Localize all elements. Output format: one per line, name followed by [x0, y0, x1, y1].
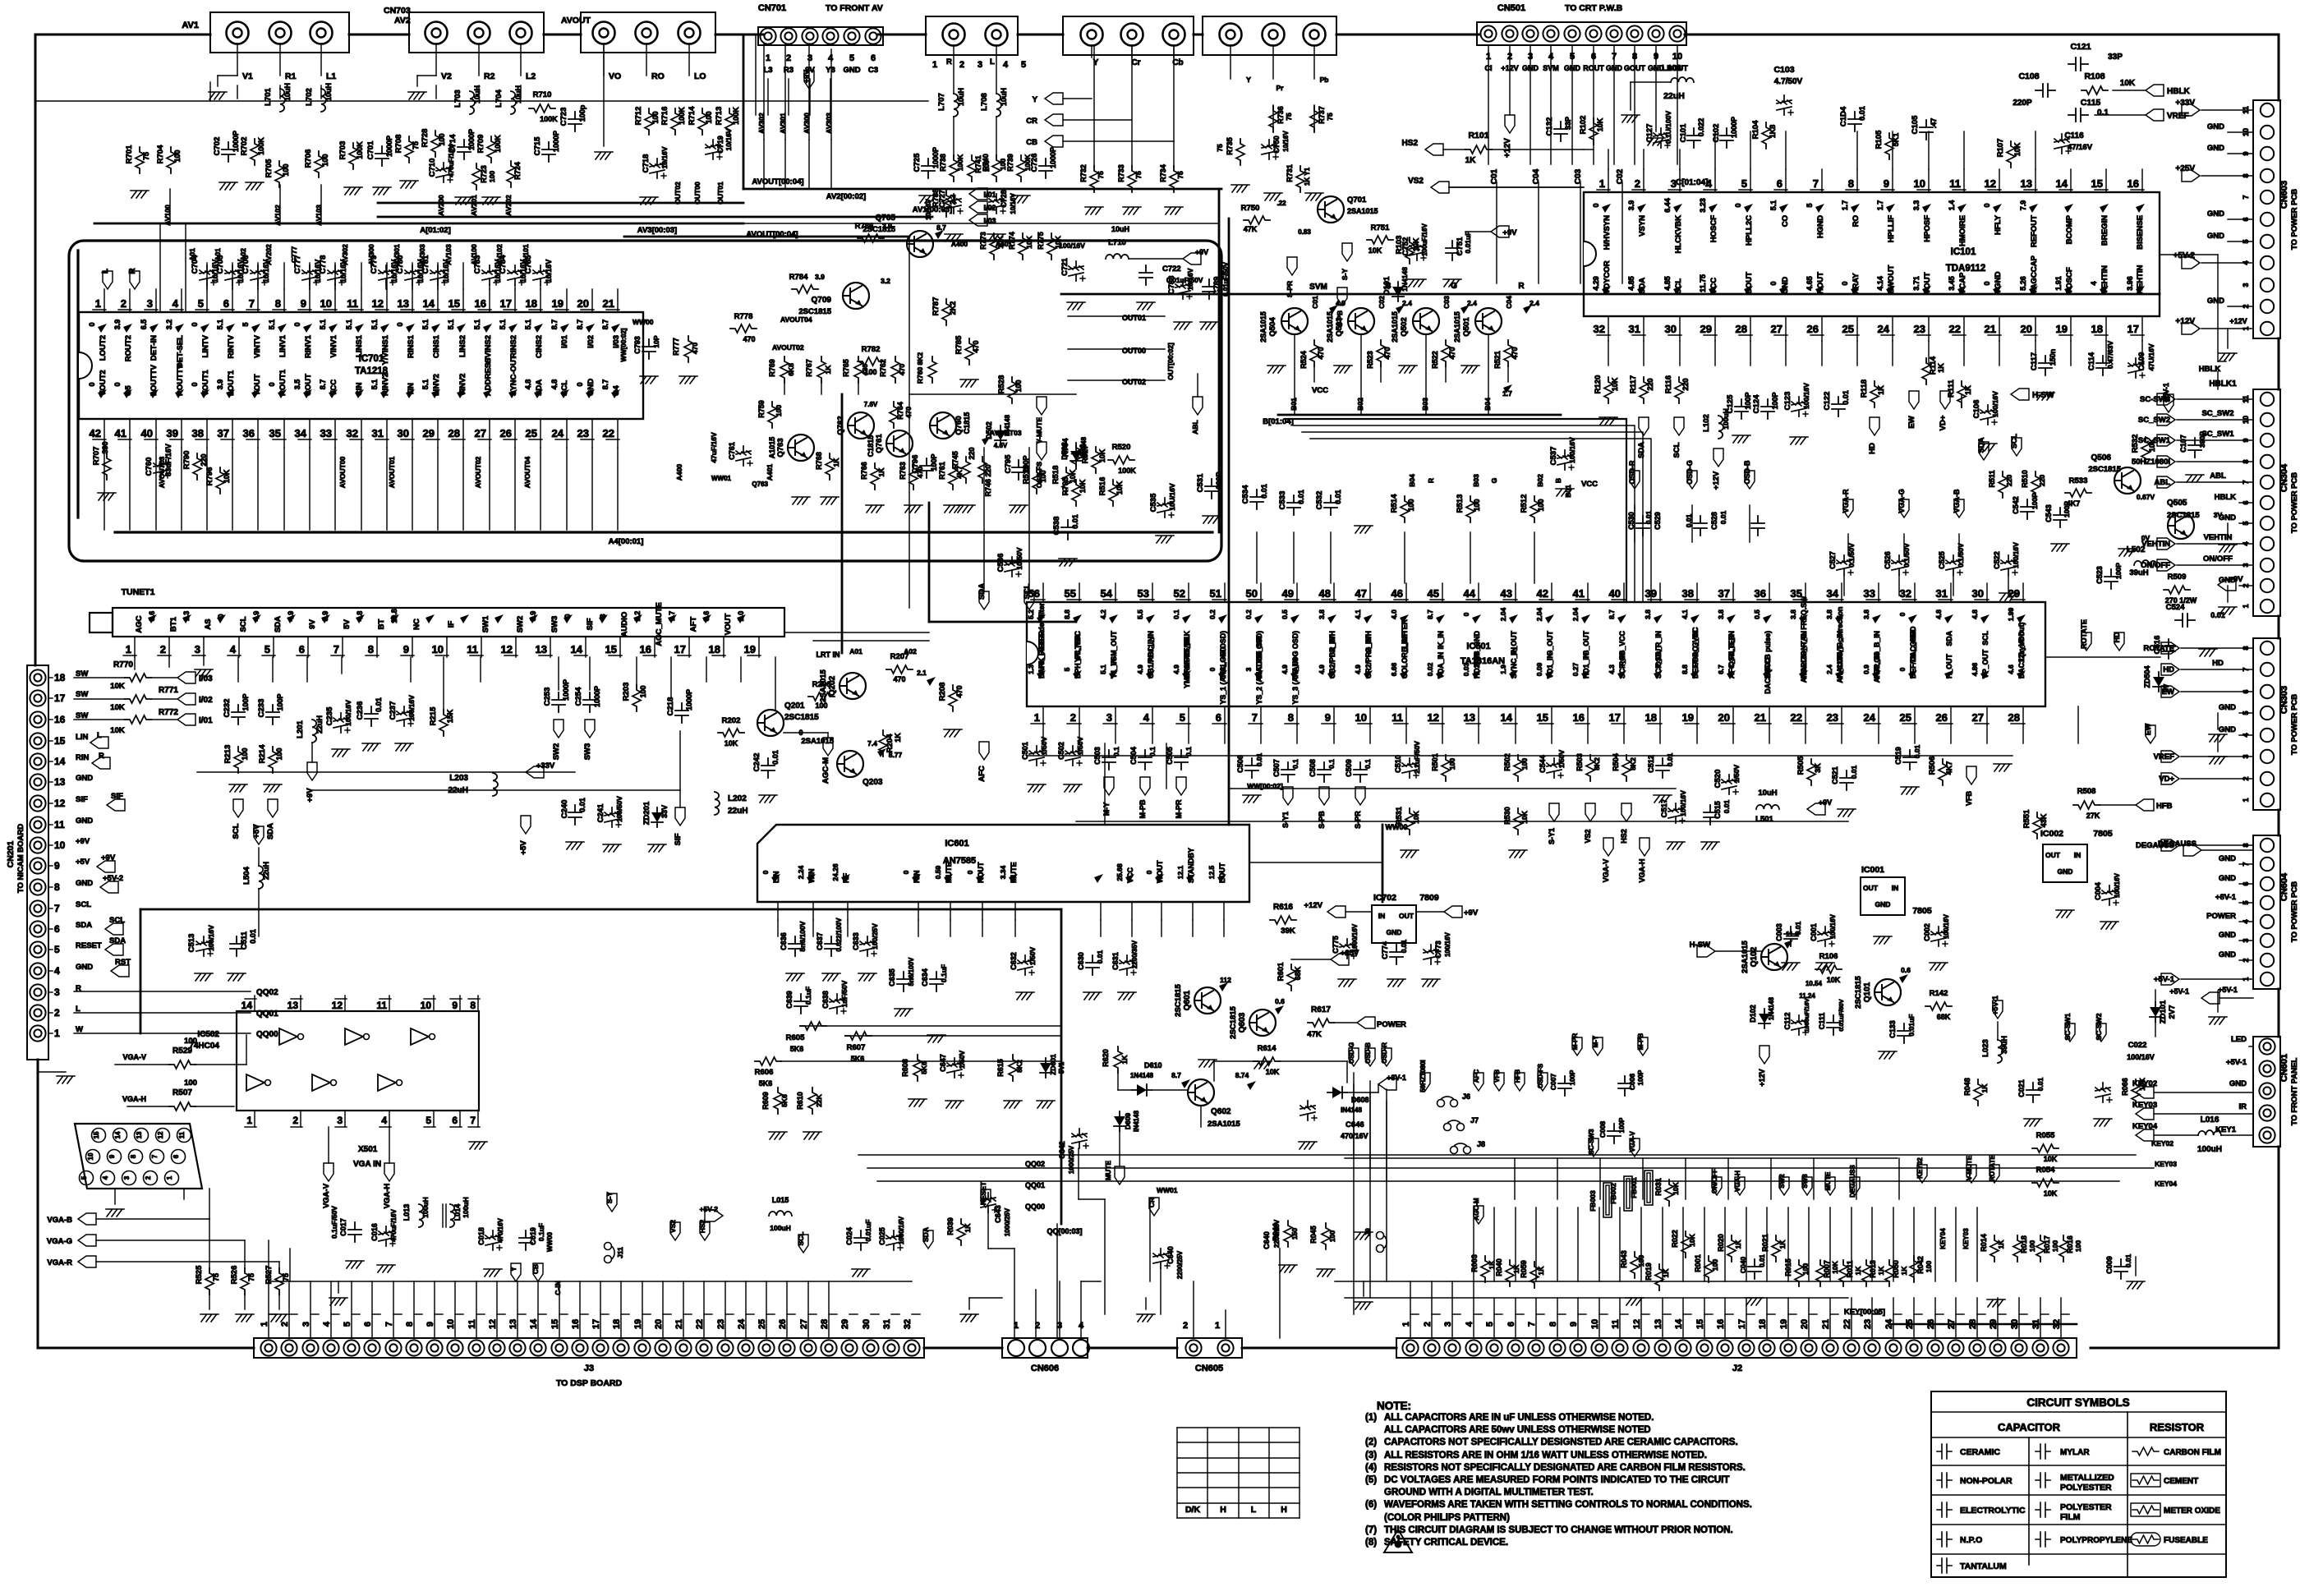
X501 pin 11 — [177, 1129, 191, 1143]
IC501 pin 3 — [1115, 706, 1116, 724]
connector AV1 — [210, 12, 349, 53]
svg-text:Y: Y — [1246, 76, 1251, 84]
IC501 pin 27 — [1986, 706, 1988, 724]
IC701 pin 36 — [257, 419, 259, 448]
J2 pin 13 — [1654, 1340, 1670, 1355]
capacitor C783 10/16V — [482, 265, 499, 285]
svg-text:C631: C631 — [1111, 952, 1120, 970]
svg-text:32: 32 — [903, 1319, 913, 1329]
svg-text:SDA: SDA — [76, 921, 92, 930]
svg-text:QQ02: QQ02 — [256, 988, 278, 997]
svg-text:4.86: 4.86 — [1971, 662, 1979, 676]
svg-text:1: 1 — [1034, 711, 1040, 724]
svg-text:0: 0 — [1983, 203, 1991, 207]
capacitor C532 0.01 — [1324, 495, 1337, 515]
svg-text:R111: R111 — [1947, 379, 1956, 397]
ground — [759, 795, 777, 803]
svg-text:10K: 10K — [1069, 469, 1077, 483]
transistor Q101 2SC1815 — [1874, 979, 1901, 1005]
resistor R — [942, 299, 950, 325]
svg-text:TO DSP BOARD: TO DSP BOARD — [556, 1378, 623, 1388]
X501 pin 5 — [80, 1171, 94, 1185]
svg-text:29: 29 — [423, 427, 435, 439]
svg-text:3: 3 — [1106, 711, 1112, 724]
connector J2 — [1396, 1338, 2077, 1358]
zener ZD201 33V — [651, 807, 663, 827]
svg-text:A400: A400 — [675, 464, 683, 481]
capacitor C646 470/16V — [1300, 1101, 1317, 1120]
svg-text:C241: C241 — [596, 803, 605, 822]
svg-text:GND: GND — [2219, 725, 2236, 734]
CN201 pin 18 — [30, 669, 45, 685]
capacitor C796 100P — [920, 458, 933, 478]
svg-text:1000uF/16V: 1000uF/16V — [1803, 998, 1810, 1032]
svg-text:0.83: 0.83 — [1298, 228, 1311, 236]
IC101 pin 21 — [1999, 316, 2000, 341]
IC501 pin 42 — [1551, 583, 1552, 602]
svg-text:4.8: 4.8 — [1934, 609, 1943, 619]
CN603 pin — [2261, 103, 2274, 117]
svg-text:18: 18 — [54, 672, 66, 683]
svg-text:Y: Y — [509, 1267, 517, 1272]
svg-text:3: 3 — [337, 1115, 343, 1126]
capacitor C242 0.01 — [761, 758, 775, 778]
svg-text:100/16V: 100/16V — [2012, 542, 2020, 568]
svg-text:SDA: SDA — [274, 616, 283, 632]
svg-text:3.5: 3.5 — [293, 379, 301, 390]
ground — [1999, 593, 2017, 600]
wires IC101 bottom pin drops — [1608, 341, 1609, 366]
svg-text:DET-SEL: DET-SEL — [176, 335, 185, 368]
capacitor C523 100P — [2104, 569, 2118, 589]
svg-text:390: 390 — [101, 441, 109, 453]
svg-text:0.1uF/50V: 0.1uF/50V — [330, 1206, 338, 1239]
svg-text:2.1: 2.1 — [917, 669, 927, 677]
resistor R — [817, 356, 826, 383]
svg-text:18: 18 — [1645, 711, 1657, 724]
svg-text:R777: R777 — [672, 338, 680, 356]
svg-text:VGA-R: VGA-R — [1842, 489, 1850, 513]
resistor R770 — [125, 674, 151, 682]
svg-text:100/16V: 100/16V — [1444, 931, 1451, 956]
CN304 pin — [2261, 476, 2274, 489]
svg-text:5.2: 5.2 — [1027, 609, 1035, 619]
J2 pin 28 — [1969, 1340, 1985, 1355]
svg-text:5.1: 5.1 — [447, 320, 455, 330]
wire — [94, 223, 743, 225]
svg-text:3.6: 3.6 — [702, 611, 711, 622]
connector CN304 — [2253, 389, 2280, 616]
capacitor C727 — [946, 194, 963, 214]
svg-text:100K: 100K — [540, 115, 558, 123]
svg-text:24: 24 — [1864, 711, 1876, 724]
svg-text:R: R — [128, 268, 137, 274]
svg-text:SIF: SIF — [111, 792, 123, 801]
capacitor C788 10/16V — [1175, 279, 1192, 299]
svg-text:+8V-1: +8V-1 — [1387, 1074, 1406, 1082]
svg-text:A01: A01 — [214, 248, 222, 261]
flag VS2 — [1431, 182, 1449, 193]
svg-text:100/16V: 100/16V — [1802, 383, 1810, 409]
svg-text:15: 15 — [448, 297, 460, 310]
capacitor C543 100P — [2054, 508, 2067, 527]
resistor R — [1727, 1235, 1736, 1262]
capacitor C253 1000P — [552, 692, 565, 712]
ground — [219, 182, 237, 190]
svg-text:R022: R022 — [1671, 1230, 1679, 1248]
AV1 jack 3 — [310, 22, 333, 44]
svg-text:17: 17 — [54, 692, 66, 704]
svg-text:19: 19 — [633, 1319, 643, 1329]
svg-text:100/16V: 100/16V — [1943, 913, 1950, 938]
svg-text:3.9: 3.9 — [113, 320, 122, 330]
svg-text:3: 3 — [1671, 177, 1677, 190]
IC501 pin 21 — [1769, 706, 1770, 724]
svg-text:470/16V: 470/16V — [497, 1217, 504, 1242]
flag S-PB — [1319, 787, 1329, 805]
svg-text:SC_SW2: SC_SW2 — [2201, 409, 2233, 418]
svg-text:C107: C107 — [2179, 435, 2187, 453]
IC501 pin 26 — [1950, 706, 1952, 724]
svg-text:C512: C512 — [1647, 755, 1655, 773]
svg-text:20: 20 — [1718, 711, 1730, 724]
svg-text:KEY02: KEY02 — [2151, 1139, 2173, 1148]
svg-text:SW2: SW2 — [552, 743, 561, 761]
svg-text:C02: C02 — [1378, 296, 1386, 309]
svg-text:1000P: 1000P — [685, 689, 693, 711]
ground — [344, 187, 362, 195]
capacitor C116 47/16V — [2054, 134, 2071, 154]
capacitor C789 0.01uF/50V — [1203, 279, 1216, 299]
svg-text:1.7: 1.7 — [1841, 200, 1849, 211]
svg-text:R519: R519 — [1022, 466, 1031, 485]
svg-text:0.01: 0.01 — [1297, 490, 1305, 504]
svg-text:15: 15 — [605, 643, 617, 655]
svg-text:R728: R728 — [421, 129, 430, 148]
svg-text:8: 8 — [275, 297, 281, 310]
svg-text:I/01: I/01 — [983, 191, 996, 199]
svg-text:D610: D610 — [1144, 1061, 1162, 1069]
CN701 pin 2 — [780, 28, 796, 44]
inductor L201 22uH — [312, 720, 317, 743]
J2 pin 24 — [1885, 1340, 1901, 1355]
svg-text:0: 0 — [902, 870, 910, 874]
svg-text:R042: R042 — [1916, 1256, 1925, 1274]
IC601 pin RF — [847, 902, 849, 920]
CN201 pin 7 — [30, 900, 45, 916]
svg-text:8.7: 8.7 — [319, 379, 327, 390]
svg-text:C538: C538 — [1052, 517, 1061, 536]
CN501 pin 4 — [1543, 25, 1558, 41]
flag +9V — [1444, 906, 1462, 918]
IC501 pin 39 — [1659, 583, 1661, 602]
IC701 pin 18 — [540, 289, 541, 312]
ground — [400, 181, 418, 188]
IC501 pin 38 — [1696, 583, 1698, 602]
svg-text:C127: C127 — [1645, 124, 1654, 143]
svg-text:C024: C024 — [845, 1227, 853, 1245]
svg-text:THIS CIRCUIT DIAGRAM IS SUBJEC: THIS CIRCUIT DIAGRAM IS SUBJECT TO CHANG… — [1384, 1525, 1733, 1535]
svg-text:AVOUT: AVOUT — [561, 16, 591, 25]
CN701 pin 1 — [760, 28, 775, 44]
svg-text:L504: L504 — [242, 866, 251, 884]
flag RESET — [981, 1189, 991, 1207]
J3 pin 28 — [821, 1340, 836, 1355]
IC502 pin 14 — [254, 996, 255, 1011]
resistor R — [1910, 1256, 1918, 1282]
wire CN606 verticals — [1035, 1290, 1037, 1338]
svg-text:GND: GND — [2207, 297, 2224, 306]
svg-text:8K2: 8K2 — [1593, 757, 1601, 770]
svg-text:R518: R518 — [1051, 466, 1060, 485]
svg-text:5.1: 5.1 — [268, 320, 276, 330]
svg-text:100/50V: 100/50V — [615, 796, 623, 822]
ground under AV1 box — [209, 92, 227, 99]
svg-text:+12V: +12V — [1712, 471, 1721, 490]
svg-text:Q504: Q504 — [1268, 317, 1277, 337]
svg-text:CIRCUIT SYMBOLS: CIRCUIT SYMBOLS — [2026, 1396, 2129, 1409]
svg-text:NON-POLAR: NON-POLAR — [1960, 1476, 2012, 1486]
svg-text:36: 36 — [1755, 587, 1766, 600]
svg-text:R533: R533 — [2069, 476, 2088, 485]
resistor R — [169, 1060, 195, 1069]
capacitor C509 0.1 — [1354, 762, 1367, 782]
svg-text:C752: C752 — [1401, 237, 1410, 256]
svg-text:R: R — [99, 752, 104, 761]
ground — [1010, 505, 1028, 513]
flag +5V — [521, 816, 531, 834]
svg-text:6: 6 — [1506, 1322, 1516, 1327]
svg-text:Q761: Q761 — [875, 434, 884, 453]
svg-text:470: 470 — [916, 467, 924, 478]
svg-text:J8: J8 — [1477, 1140, 1485, 1148]
ground near CN606 — [960, 1314, 978, 1322]
ground — [2118, 549, 2137, 556]
resistor R — [1681, 1231, 1690, 1258]
IC701 pin 23 — [591, 419, 593, 448]
flag VGA-B — [1954, 499, 1964, 517]
IC501 pin 32 — [1914, 583, 1916, 602]
wire to HBLK1 — [2218, 361, 2226, 362]
ground — [2024, 1119, 2042, 1126]
resistor R — [1504, 340, 1512, 366]
J2 pin 29 — [1989, 1340, 2005, 1355]
CN604 pin — [2261, 973, 2274, 986]
svg-text:NOTE:: NOTE: — [1377, 1400, 1411, 1412]
svg-text:8: 8 — [1548, 1322, 1558, 1327]
svg-text:3.71: 3.71 — [1912, 276, 1920, 291]
svg-text:0: 0 — [1898, 612, 1907, 616]
CN603 pin — [2261, 147, 2274, 160]
svg-text:C635: C635 — [888, 968, 896, 987]
svg-text:RO: RO — [651, 71, 665, 81]
svg-text:Q601: Q601 — [1183, 990, 1192, 1010]
resistor R — [1072, 443, 1080, 469]
svg-text:0.6: 0.6 — [1901, 966, 1911, 974]
svg-text:+5V-1: +5V-1 — [1991, 996, 1999, 1015]
resistor R — [251, 139, 259, 165]
svg-text:C111: C111 — [1818, 1013, 1826, 1030]
flag SCL — [1024, 591, 1034, 609]
svg-text:VREF: VREF — [2167, 112, 2189, 121]
flag +5V-1 — [1993, 1000, 2003, 1019]
svg-text:100P: 100P — [276, 693, 284, 711]
svg-text:0: 0 — [113, 382, 122, 386]
CN201 pin 11 — [30, 816, 45, 832]
svg-text:5: 5 — [1021, 60, 1026, 70]
svg-text:L: L — [990, 57, 995, 67]
svg-text:430: 430 — [861, 364, 869, 375]
svg-text:CN606: CN606 — [1031, 1364, 1059, 1373]
IC701 pin 28 — [462, 419, 464, 448]
svg-text:16: 16 — [1573, 711, 1585, 724]
resistor R — [2032, 1179, 2058, 1187]
svg-text:HBLK: HBLK — [2215, 493, 2237, 502]
TUNET1 pin 17 — [688, 637, 690, 657]
svg-text:1N4148: 1N4148 — [1130, 1072, 1154, 1079]
svg-text:R770: R770 — [113, 660, 133, 669]
svg-text:100P: 100P — [2031, 493, 2039, 509]
IC701 pin 21 — [617, 289, 619, 312]
svg-text:R116: R116 — [1664, 375, 1673, 393]
svg-text:R769: R769 — [768, 359, 776, 377]
svg-text:0.022/100V: 0.022/100V — [835, 918, 843, 952]
capacitor C506 0.01 — [1245, 758, 1258, 778]
flag HS2 — [700, 1222, 710, 1240]
svg-text:A4[00:01]: A4[00:01] — [609, 537, 644, 546]
svg-text:22: 22 — [603, 427, 614, 439]
IC101 pin 8 — [1856, 169, 1858, 192]
svg-text:C021: C021 — [2017, 1079, 2026, 1097]
svg-text:22: 22 — [1791, 711, 1802, 724]
flag +12V — [1759, 1046, 1769, 1064]
svg-text:100/25V: 100/25V — [871, 923, 879, 950]
resistor R — [2033, 812, 2041, 839]
svg-text:1.3: 1.3 — [182, 611, 191, 622]
capacitor C241 100/50V — [605, 807, 621, 827]
svg-text:9: 9 — [108, 1154, 116, 1158]
svg-text:4.9: 4.9 — [1354, 665, 1362, 674]
svg-text:20: 20 — [2021, 323, 2032, 335]
svg-text:B03: B03 — [1421, 398, 1429, 411]
svg-text:21: 21 — [1821, 1319, 1831, 1329]
svg-text:A400: A400 — [951, 240, 968, 248]
svg-text:5: 5 — [80, 1175, 88, 1180]
svg-text:220P: 220P — [2012, 99, 2032, 108]
IC101 pin 4 — [1714, 169, 1716, 192]
IC701 pin 30 — [412, 419, 413, 448]
svg-text:4: 4 — [1143, 711, 1150, 724]
svg-text:0: 0 — [217, 614, 225, 618]
svg-text:C516: C516 — [2153, 636, 2162, 655]
flags OSD row — [1349, 1048, 1359, 1066]
CN604 pin — [2261, 839, 2274, 852]
capacitor C638 1uF/50V — [830, 994, 846, 1014]
CN201 pin 12 — [30, 795, 45, 811]
svg-text:VGA-R: VGA-R — [47, 1258, 72, 1267]
svg-text:100: 100 — [1711, 1259, 1719, 1271]
svg-text:C114: C114 — [2087, 352, 2096, 370]
resistor R — [1640, 377, 1648, 403]
svg-text:R712: R712 — [634, 107, 643, 126]
svg-text:15: 15 — [2091, 177, 2103, 190]
svg-text:HBLK: HBLK — [2167, 87, 2191, 96]
capacitor C109 47U/16V — [2128, 358, 2145, 378]
capacitor C533 0.01 — [1287, 495, 1300, 515]
svg-text:R708: R708 — [394, 135, 403, 154]
svg-text:0: 0 — [1462, 612, 1470, 616]
wires J3 up to VGA area — [268, 1240, 269, 1281]
resistor R — [1405, 808, 1414, 835]
svg-text:C542: C542 — [2012, 496, 2020, 514]
resistor R — [730, 324, 757, 333]
svg-text:7809: 7809 — [1419, 893, 1439, 903]
svg-text:11: 11 — [178, 1131, 186, 1138]
flag OSD-R — [1630, 471, 1640, 489]
resistor R — [1762, 122, 1770, 149]
svg-text:2SA1015: 2SA1015 — [1391, 311, 1399, 343]
resistor R — [1807, 759, 1815, 785]
svg-text:C777: C777 — [290, 246, 298, 264]
capacitor C640 2200/25V — [1153, 1249, 1170, 1268]
svg-text:C108: C108 — [2018, 71, 2039, 81]
capacitor C516 — [2162, 639, 2175, 659]
svg-text:L102: L102 — [1702, 414, 1711, 432]
IC601 pin RIN — [918, 902, 919, 920]
inductor L501 10uH — [1756, 804, 1779, 809]
svg-text:SDA: SDA — [977, 583, 987, 600]
svg-text:5.1: 5.1 — [216, 320, 224, 330]
resistor R — [1236, 139, 1244, 165]
inductor L701 10uH — [280, 89, 285, 112]
svg-text:0.2: 0.2 — [1244, 609, 1253, 619]
svg-text:2: 2 — [160, 643, 166, 655]
svg-text:SDA: SDA — [1637, 442, 1646, 458]
svg-text:AV303: AV303 — [418, 244, 426, 265]
svg-text:9: 9 — [1325, 711, 1331, 724]
IC501 pin 53 — [1152, 583, 1153, 602]
svg-text:L501: L501 — [1755, 815, 1773, 824]
svg-text:R607: R607 — [847, 1043, 866, 1052]
IC502 pin 2 — [300, 1111, 301, 1127]
capacitor C795 100P — [1012, 460, 1025, 480]
ground — [1203, 516, 1221, 523]
svg-text:VS2: VS2 — [1408, 177, 1424, 186]
capacitor C722 0.01uF/50V — [1139, 265, 1152, 285]
svg-text:B_OUT: B_OUT — [1582, 630, 1590, 655]
svg-text:10P: 10P — [652, 335, 660, 347]
svg-text:4.8: 4.8 — [524, 379, 532, 390]
svg-text:8.7: 8.7 — [601, 320, 609, 330]
ground — [1667, 842, 1685, 849]
CN601 pin — [2259, 1060, 2275, 1076]
svg-text:C632: C632 — [1010, 952, 1018, 970]
svg-text:31: 31 — [372, 427, 384, 439]
svg-text:24: 24 — [737, 1318, 747, 1329]
J3 pin 13 — [509, 1340, 525, 1355]
resistor R — [1405, 237, 1414, 264]
svg-text:2SA1015: 2SA1015 — [1207, 1120, 1240, 1129]
svg-text:1: 1 — [2242, 604, 2250, 608]
svg-text:R705: R705 — [264, 159, 274, 177]
resistor R — [2007, 141, 2015, 168]
svg-text:10K: 10K — [1368, 246, 1382, 255]
capacitor C780 10/16V — [405, 265, 421, 285]
flag +12V down — [1713, 448, 1723, 467]
svg-text:R016: R016 — [2066, 1235, 2074, 1253]
svg-text:1K: 1K — [1537, 1266, 1545, 1276]
svg-text:C002: C002 — [1923, 923, 1931, 941]
